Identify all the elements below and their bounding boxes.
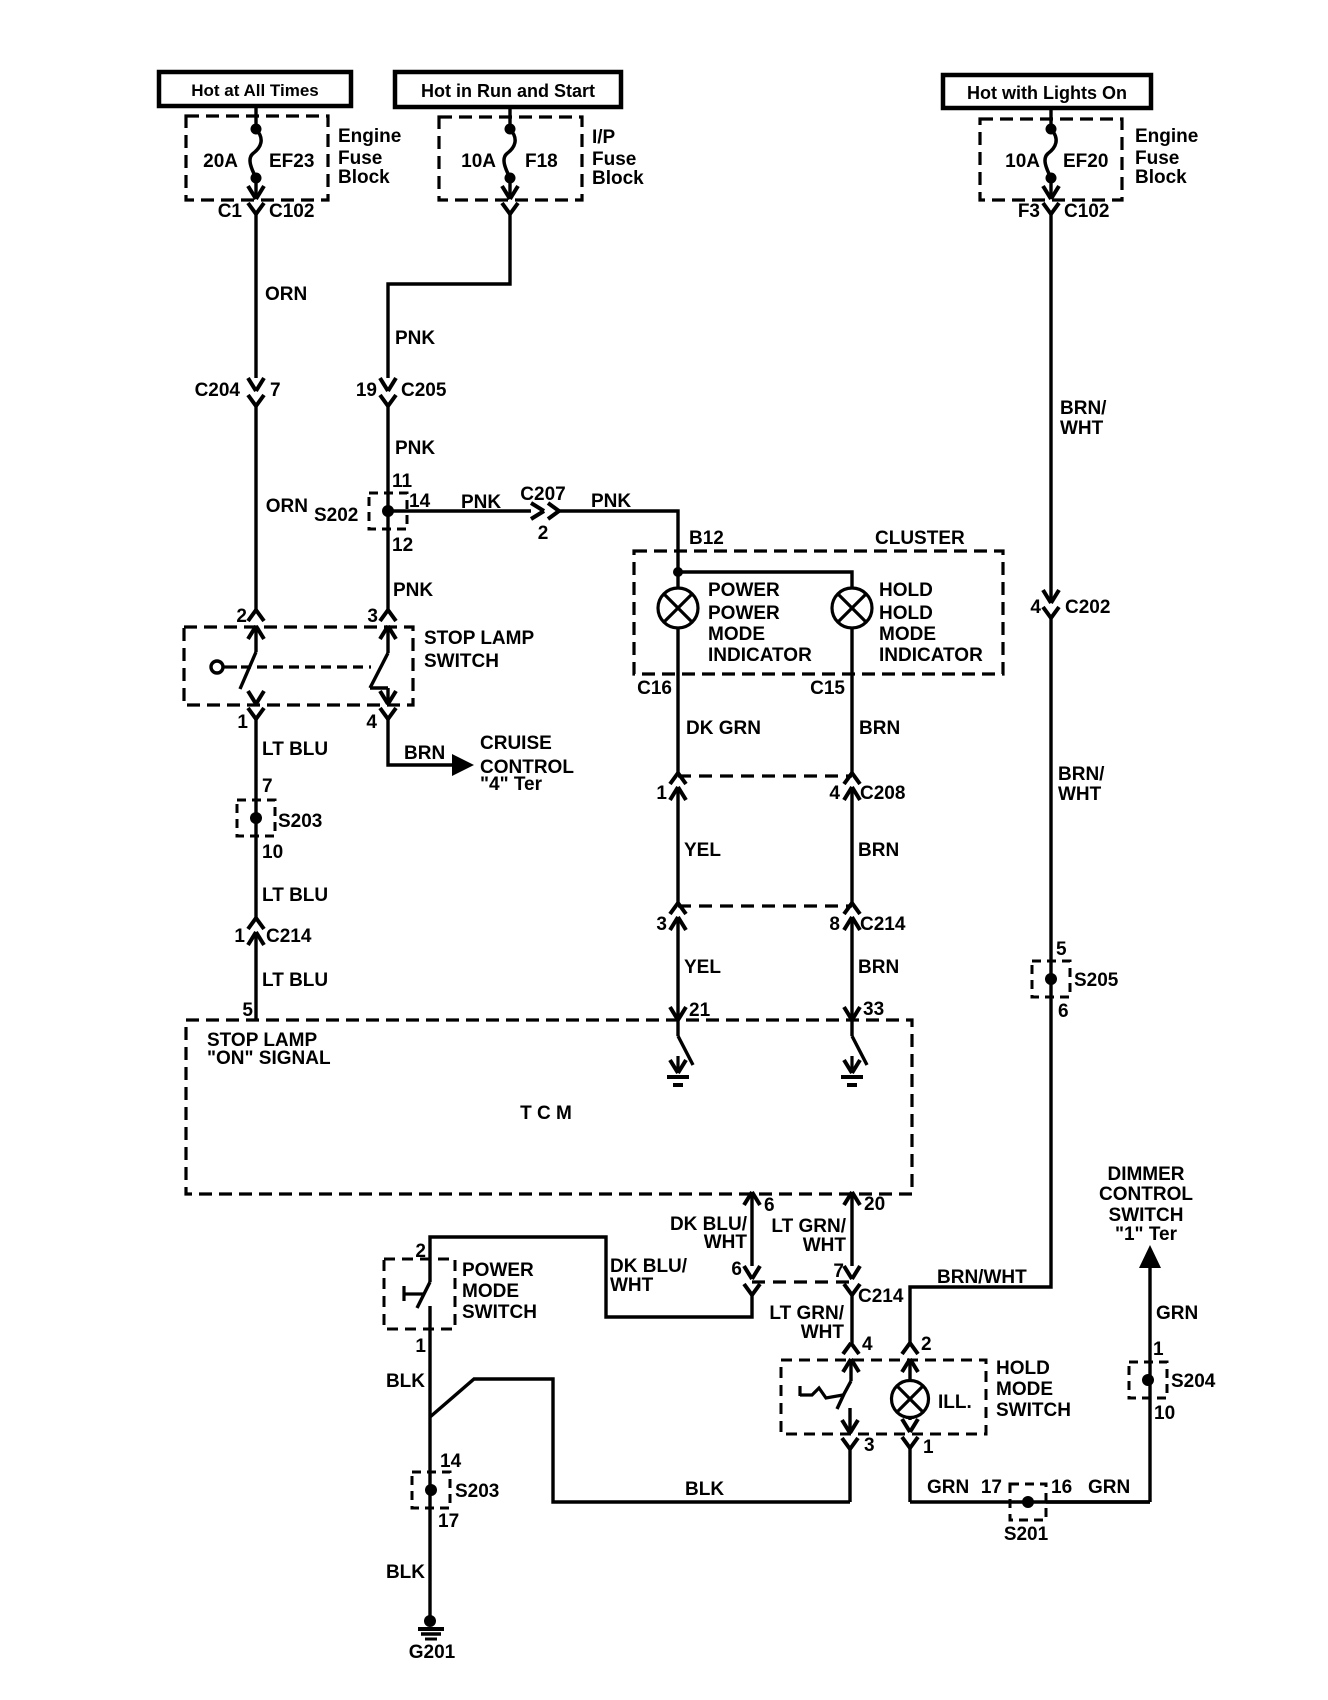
svg-text:LT BLU: LT BLU [262, 885, 328, 906]
wire LT BLU from pin1 to S203 [256, 719, 328, 918]
svg-text:ILL.: ILL. [938, 1392, 972, 1413]
svg-text:Hot with Lights On: Hot with Lights On [967, 83, 1127, 103]
power mode switch [384, 1241, 537, 1329]
svg-text:POWER: POWER [462, 1260, 534, 1281]
svg-text:BRN/: BRN/ [1058, 764, 1105, 785]
svg-text:BRN: BRN [858, 957, 899, 978]
svg-text:11: 11 [392, 471, 413, 492]
svg-text:20A: 20A [203, 151, 238, 172]
wire GRN from S204 to dimmer control switch [1150, 1268, 1198, 1398]
svg-text:T C M: T C M [520, 1103, 572, 1124]
svg-text:C16: C16 [637, 678, 672, 699]
wire GRN from S201 to S204 [1046, 1398, 1150, 1502]
pin 2 of stop lamp switch [236, 606, 264, 639]
svg-text:PNK: PNK [461, 492, 501, 513]
svg-text:LT BLU: LT BLU [262, 970, 328, 991]
svg-text:1: 1 [656, 783, 667, 804]
wire PNK from S202 to C207 [388, 492, 531, 513]
svg-text:Engine: Engine [1135, 126, 1198, 147]
svg-text:STOP LAMP: STOP LAMP [424, 628, 534, 649]
wire YEL C214 to TCM pin 21 [678, 917, 721, 1021]
svg-text:WHT: WHT [801, 1322, 845, 1343]
connector C214 row pins 3/8 [656, 903, 905, 935]
svg-text:19: 19 [356, 380, 377, 401]
stop lamp switch blade pin3-pin4 with spring hook [370, 626, 388, 704]
svg-text:10: 10 [1154, 1403, 1175, 1424]
svg-text:7: 7 [262, 776, 273, 797]
svg-text:EF20: EF20 [1063, 151, 1108, 172]
wire LT BLU from S203 to C214 [262, 885, 328, 906]
svg-text:14: 14 [409, 491, 431, 512]
connector C208 row [656, 773, 905, 804]
wire PNK from S202 down to stop lamp switch pin 3 [388, 529, 433, 610]
svg-text:I/P: I/P [592, 127, 616, 148]
wire BLK branch to hold mode switch pin 3 [430, 1379, 850, 1502]
splice S204 pins 1/10 [1129, 1362, 1216, 1424]
ground G201 [409, 1615, 456, 1663]
fuse F18 10A in I/P Fuse Block [439, 107, 644, 200]
svg-text:GRN: GRN [1088, 1477, 1130, 1498]
svg-text:Block: Block [592, 168, 644, 189]
hold mode switch box [781, 1358, 1071, 1434]
svg-text:POWER: POWER [708, 580, 780, 601]
svg-text:BLK: BLK [386, 1562, 425, 1583]
svg-text:10A: 10A [1005, 151, 1040, 172]
svg-text:POWER: POWER [708, 603, 780, 624]
connector C1 / C102 [218, 178, 315, 222]
svg-text:8: 8 [829, 914, 840, 935]
svg-text:C214: C214 [266, 926, 312, 947]
svg-text:20: 20 [864, 1194, 885, 1215]
wire LT GRN/WHT from TCM pin20 to C214 [771, 1192, 852, 1266]
svg-text:PNK: PNK [395, 328, 435, 349]
pin 3 of hold mode switch [842, 1408, 875, 1456]
svg-text:BRN: BRN [404, 743, 445, 764]
svg-text:4: 4 [862, 1334, 873, 1355]
svg-text:14: 14 [440, 1451, 462, 1472]
wire PNK from C207 to cluster B12 [559, 491, 678, 551]
svg-text:BRN/WHT: BRN/WHT [937, 1267, 1027, 1288]
pin 2 of hold mode switch [902, 1334, 932, 1372]
svg-text:PNK: PNK [393, 580, 433, 601]
power mode switch pin 1 wire BLK [386, 1306, 430, 1417]
svg-text:Fuse: Fuse [338, 148, 382, 169]
svg-text:1: 1 [237, 712, 248, 733]
svg-text:C102: C102 [269, 201, 314, 222]
svg-text:17: 17 [981, 1477, 1002, 1498]
svg-text:21: 21 [689, 1000, 711, 1021]
splice S202 [266, 471, 431, 556]
svg-text:C15: C15 [810, 678, 845, 699]
svg-text:WHT: WHT [803, 1235, 847, 1256]
wire BRN/WHT from S205 to hold mode switch pin 2 [910, 997, 1051, 1343]
wire BRN from pin 4 to cruise control [388, 719, 452, 765]
svg-text:LT GRN/: LT GRN/ [769, 1303, 844, 1324]
svg-text:S202: S202 [314, 505, 358, 526]
power mode switch internals [404, 1259, 430, 1308]
connector C204 pin 7 [195, 378, 281, 406]
wire YEL C208 to C214 (left) [678, 787, 721, 903]
svg-text:1: 1 [234, 926, 245, 947]
TCM pin 33 entry arrow [844, 1007, 860, 1020]
stop lamp switch blade pin2-pin1 [240, 626, 256, 689]
svg-text:MODE: MODE [996, 1379, 1053, 1400]
svg-text:EF23: EF23 [269, 151, 314, 172]
svg-text:5: 5 [242, 1000, 253, 1021]
svg-text:Engine: Engine [338, 126, 401, 147]
connector C214 bottom row pins 6/7 [731, 1259, 903, 1307]
svg-text:3: 3 [367, 606, 378, 627]
wire BRN/WHT from F3/C102 to C202 [1051, 214, 1107, 602]
node: Hot with Lights On header [943, 75, 1151, 108]
svg-text:Hot in Run and Start: Hot in Run and Start [421, 81, 595, 101]
svg-text:C1: C1 [218, 201, 243, 222]
splice S205 pins 5/6 [1032, 961, 1119, 1022]
TCM internal ground (left) [667, 1056, 689, 1085]
wire LT GRN/WHT from C214-7 to hold mode switch pin 4 [769, 1295, 852, 1343]
ILL illumination lamp in hold mode switch [892, 1359, 972, 1418]
svg-text:INDICATOR: INDICATOR [879, 645, 983, 666]
svg-text:1: 1 [923, 1437, 934, 1458]
svg-text:3: 3 [656, 914, 667, 935]
svg-text:S203: S203 [278, 811, 322, 832]
svg-text:BRN/: BRN/ [1060, 398, 1107, 419]
svg-text:Hot at All Times: Hot at All Times [191, 81, 319, 100]
svg-text:C102: C102 [1064, 201, 1109, 222]
svg-text:BRN: BRN [858, 840, 899, 861]
connector F3 / C102 [1018, 178, 1110, 222]
svg-text:WHT: WHT [704, 1232, 748, 1253]
svg-text:33: 33 [863, 999, 884, 1020]
fuse EF23 20A in Engine Fuse Block [186, 106, 401, 200]
wire from power lamp to C16 [637, 627, 761, 773]
svg-text:HOLD: HOLD [879, 580, 933, 601]
svg-text:CRUISE: CRUISE [480, 733, 552, 754]
dimmer control switch terminal arrow [1099, 1164, 1193, 1268]
svg-text:16: 16 [1051, 1477, 1072, 1498]
svg-text:4: 4 [829, 783, 840, 804]
pin 1 of hold mode switch [902, 1417, 934, 1458]
svg-text:SWITCH: SWITCH [996, 1400, 1071, 1421]
TCM internal switch pin 33 [852, 1020, 867, 1065]
svg-text:6: 6 [764, 1195, 775, 1216]
svg-text:SWITCH: SWITCH [424, 651, 499, 672]
connector C207 pin 2 [520, 484, 565, 544]
svg-text:S205: S205 [1074, 970, 1119, 991]
svg-text:C202: C202 [1065, 597, 1110, 618]
wire node B12 junction [673, 551, 852, 589]
connector C202 pin 4 [1030, 590, 1110, 618]
svg-text:C205: C205 [401, 380, 447, 401]
svg-text:WHT: WHT [610, 1275, 654, 1296]
svg-text:2: 2 [236, 606, 247, 627]
TCM module box [186, 1020, 912, 1194]
svg-text:S204: S204 [1171, 1371, 1216, 1392]
svg-text:17: 17 [438, 1511, 459, 1532]
svg-text:Block: Block [338, 167, 390, 188]
TCM internal switch pin 21 [678, 1020, 693, 1065]
connector below F18 [502, 178, 518, 214]
svg-text:Fuse: Fuse [1135, 148, 1179, 169]
svg-text:7: 7 [270, 380, 281, 401]
svg-text:MODE: MODE [708, 624, 765, 645]
svg-text:10A: 10A [461, 151, 496, 172]
svg-text:C214: C214 [860, 914, 906, 935]
svg-text:ORN: ORN [265, 284, 307, 305]
hold mode switch blade and link [800, 1359, 851, 1409]
svg-text:PNK: PNK [395, 438, 435, 459]
svg-text:G201: G201 [409, 1642, 456, 1663]
power mode indicator lamp [658, 580, 812, 666]
svg-text:7: 7 [833, 1261, 844, 1282]
svg-text:SWITCH: SWITCH [462, 1302, 537, 1323]
splice S201 pins 17/16 [1004, 1477, 1072, 1545]
svg-text:C207: C207 [520, 484, 565, 505]
svg-text:ORN: ORN [266, 496, 308, 517]
stop lamp switch SW1 [184, 627, 534, 705]
svg-text:F3: F3 [1018, 201, 1040, 222]
stop lamp switch mechanical link (dashed) [241, 665, 371, 668]
fuse EF20 10A in Engine Fuse Block [980, 108, 1198, 200]
svg-text:YEL: YEL [684, 840, 721, 861]
cluster box [634, 528, 1003, 674]
wire ORN from C204 to stop lamp switch pin 2 [254, 406, 257, 610]
svg-text:INDICATOR: INDICATOR [708, 645, 812, 666]
wire DK BLU/WHT from C214-6 to power mode switch [430, 1237, 752, 1317]
svg-text:"ON" SIGNAL: "ON" SIGNAL [207, 1048, 331, 1069]
pin 3 of stop lamp switch [367, 606, 396, 639]
svg-text:GRN: GRN [927, 1477, 969, 1498]
svg-text:MODE: MODE [462, 1281, 519, 1302]
svg-text:5: 5 [1056, 939, 1067, 960]
svg-text:10: 10 [262, 842, 283, 863]
node: Hot at All Times header [159, 72, 351, 106]
svg-text:DK BLU/: DK BLU/ [610, 1256, 688, 1277]
svg-text:2: 2 [538, 523, 549, 544]
svg-text:2: 2 [415, 1241, 426, 1262]
connector C205 pin 19 [356, 378, 447, 406]
svg-text:S203: S203 [455, 1481, 499, 1502]
hold mode indicator lamp [832, 580, 983, 666]
svg-text:WHT: WHT [1058, 784, 1102, 805]
wire BRN C208 to C214 (right) [852, 787, 899, 903]
svg-text:DIMMER: DIMMER [1107, 1164, 1184, 1185]
svg-text:C214: C214 [858, 1286, 904, 1307]
svg-text:S201: S201 [1004, 1524, 1049, 1545]
svg-text:WHT: WHT [1060, 418, 1104, 439]
cruise control terminal arrow [452, 733, 574, 795]
svg-text:C208: C208 [860, 783, 905, 804]
svg-text:2: 2 [921, 1334, 932, 1355]
svg-text:LT GRN/: LT GRN/ [771, 1216, 846, 1237]
wire from hold lamp to C15 [810, 627, 900, 773]
wire GRN from pin 1 to S201 [910, 1448, 1150, 1502]
svg-text:YEL: YEL [684, 957, 721, 978]
svg-text:4: 4 [1030, 597, 1041, 618]
pin 1 of stop lamp switch [237, 691, 264, 733]
svg-text:BLK: BLK [685, 1479, 724, 1500]
svg-text:6: 6 [731, 1259, 742, 1280]
TCM pin 21 entry arrow [670, 1007, 686, 1020]
svg-text:C204: C204 [195, 380, 241, 401]
connector C214 pin 1 (left) [234, 918, 311, 947]
wire DK BLU/WHT from TCM pin6 to C214 [670, 1192, 752, 1266]
svg-text:3: 3 [864, 1435, 875, 1456]
svg-text:SWITCH: SWITCH [1109, 1205, 1184, 1226]
pin 4 of stop lamp switch [366, 691, 396, 733]
svg-text:MODE: MODE [879, 624, 936, 645]
svg-text:HOLD: HOLD [879, 603, 933, 624]
svg-text:HOLD: HOLD [996, 1358, 1050, 1379]
wire from pin 3 to BLK line [848, 1448, 851, 1502]
wire PNK from F18 fuse to C205 [388, 214, 510, 378]
wire BRN/WHT from C202 to S205 [1051, 618, 1105, 997]
wire LT BLU from C214 to TCM pin 5 [242, 932, 328, 1021]
splice S203 pins 7/10 [237, 776, 322, 863]
node: Hot in Run and Start header [395, 72, 621, 107]
svg-text:12: 12 [392, 535, 413, 556]
svg-text:1: 1 [1153, 1339, 1164, 1360]
wire BRN C214 to TCM pin 33 [852, 917, 899, 1020]
svg-text:Fuse: Fuse [592, 149, 636, 170]
TCM pin 20 exit arrow [844, 1192, 885, 1215]
TCM internal ground (right) [841, 1056, 863, 1085]
svg-text:LT BLU: LT BLU [262, 739, 328, 760]
svg-text:6: 6 [1058, 1001, 1069, 1022]
svg-text:B12: B12 [689, 528, 724, 549]
svg-text:"4" Ter: "4" Ter [480, 774, 543, 795]
svg-text:CONTROL: CONTROL [1099, 1184, 1193, 1205]
svg-text:F18: F18 [525, 151, 558, 172]
svg-text:"1" Ter: "1" Ter [1115, 1224, 1178, 1245]
svg-text:4: 4 [366, 712, 377, 733]
svg-text:Block: Block [1135, 167, 1187, 188]
svg-text:BRN: BRN [859, 718, 900, 739]
splice S203 pins 14/17 [386, 1417, 499, 1615]
svg-text:CLUSTER: CLUSTER [875, 528, 965, 549]
svg-text:GRN: GRN [1156, 1303, 1198, 1324]
svg-text:BLK: BLK [386, 1371, 425, 1392]
svg-text:PNK: PNK [591, 491, 631, 512]
wire PNK from C205 to splice S202 [388, 406, 435, 529]
svg-text:1: 1 [415, 1336, 426, 1357]
TCM pin 6 exit arrow [744, 1192, 775, 1216]
svg-text:DK GRN: DK GRN [686, 718, 761, 739]
pin 4 of hold mode switch [843, 1334, 873, 1372]
stop lamp switch left contact circle [211, 661, 237, 673]
wire ORN from C102 to C204 [256, 214, 307, 378]
